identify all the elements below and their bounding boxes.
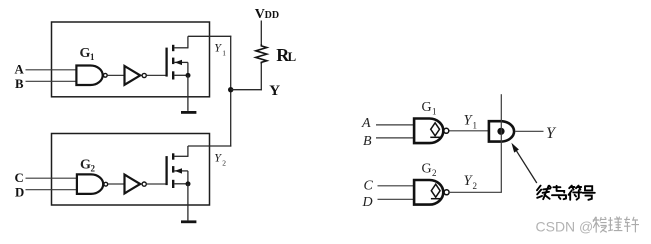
svg-text:1: 1	[90, 52, 95, 62]
svg-text:1: 1	[432, 107, 437, 117]
open-drain symbol in G1	[430, 123, 440, 138]
wire G2 to inverter	[108, 183, 124, 185]
号	[583, 186, 595, 200]
svg-text:Y: Y	[269, 83, 280, 99]
wire Y2 to wired-AND vertical	[450, 191, 502, 193]
svg-text:C: C	[364, 179, 374, 194]
nand gate G1	[76, 66, 102, 86]
svg-text:D: D	[15, 186, 24, 200]
label G1 (right)	[422, 100, 437, 117]
ground (top cell)	[181, 111, 196, 114]
wire A (right)	[376, 124, 415, 126]
轩	[624, 217, 631, 232]
wire G1 to inverter	[107, 74, 124, 76]
svg-text:G: G	[80, 158, 91, 173]
穆	[593, 217, 600, 233]
wire D	[26, 189, 78, 191]
inverter U2	[125, 175, 141, 194]
bubble of U1	[142, 73, 146, 77]
power VDD label	[255, 7, 279, 22]
wire vertical through wired-AND	[500, 94, 502, 192]
符	[569, 186, 581, 190]
junction node Y	[228, 87, 233, 92]
node Y2 label	[214, 150, 226, 167]
svg-text:B: B	[15, 77, 24, 91]
svg-text:B: B	[363, 134, 372, 149]
resistor RL	[256, 44, 267, 64]
wire Q1 source to ground	[187, 75, 189, 111]
bubble of U2	[142, 182, 146, 186]
svg-text:CSDN @: CSDN @	[536, 219, 594, 235]
inverter U1	[125, 66, 141, 85]
wire B (right)	[376, 137, 415, 139]
arrow callout line	[515, 149, 536, 183]
wire Q2 source to ground	[187, 184, 189, 221]
box (top cell)	[52, 22, 210, 97]
bubble of G2	[104, 182, 108, 186]
wire C	[26, 177, 78, 179]
label G1	[80, 46, 96, 62]
box (bottom cell)	[52, 134, 210, 206]
label RL	[276, 45, 296, 65]
wire D (right)	[378, 198, 416, 200]
open-drain symbol in G2	[431, 184, 441, 199]
ground (bottom cell)	[181, 220, 196, 223]
wire B	[26, 80, 78, 82]
svg-text:1: 1	[473, 120, 478, 130]
wire Y output	[516, 130, 544, 132]
wired-AND symbol	[489, 121, 514, 141]
wire resistor to node Y	[260, 64, 262, 90]
wire A	[26, 69, 78, 71]
transistor Q2 (open-drain NMOS)	[167, 146, 191, 188]
svg-text:2: 2	[432, 168, 437, 178]
线	[537, 186, 542, 198]
svg-text:A: A	[361, 116, 371, 131]
svg-text:G: G	[422, 162, 432, 177]
wire Y2 (drain out to bus)	[188, 145, 231, 147]
label G2	[80, 158, 96, 174]
nand gate G1 (right, open-drain)	[414, 119, 443, 144]
node Y2 label (right)	[464, 173, 478, 191]
svg-text:D: D	[362, 195, 373, 210]
wire U1 to Q1 gate	[147, 74, 167, 76]
watermark chinese handle (drawn gray glyphs)	[593, 217, 639, 233]
nand gate G2	[77, 174, 103, 194]
arrow head	[511, 143, 519, 153]
junction dot in wired-AND	[497, 128, 504, 135]
transistor Q1 (open-drain NMOS)	[167, 36, 191, 79]
bubble of G1 (right)	[444, 128, 449, 133]
svg-text:V: V	[255, 7, 265, 22]
svg-text:A: A	[15, 63, 25, 77]
svg-text:C: C	[15, 171, 24, 185]
bubble of G1	[103, 73, 107, 77]
wire node Y to resistor	[231, 89, 262, 91]
svg-text:1: 1	[222, 48, 226, 57]
annotation text 线与符号 (drawn glyphs)	[537, 186, 595, 200]
label G2 (right)	[422, 162, 437, 179]
nand gate G2 (right, open-drain)	[414, 180, 443, 205]
node Y1 label	[214, 40, 226, 57]
wire Y1 to wired-AND	[450, 130, 489, 132]
svg-text:G: G	[80, 46, 91, 61]
svg-text:DD: DD	[265, 10, 279, 21]
svg-text:2: 2	[473, 181, 478, 191]
wire VDD to resistor	[260, 21, 262, 46]
瑾	[608, 217, 613, 231]
svg-text:2: 2	[91, 164, 96, 174]
wire U2 to Q2 gate	[147, 183, 167, 185]
svg-text:2: 2	[222, 158, 226, 167]
node Y1 label (right)	[464, 112, 478, 130]
bubble of G2 (right)	[444, 190, 449, 195]
wire C (right)	[378, 185, 416, 187]
wire Y bus (vertical)	[230, 36, 232, 147]
svg-text:G: G	[422, 100, 432, 115]
svg-text:L: L	[288, 49, 297, 64]
wire Y1 (drain out to bus)	[188, 35, 231, 37]
与	[552, 186, 566, 199]
